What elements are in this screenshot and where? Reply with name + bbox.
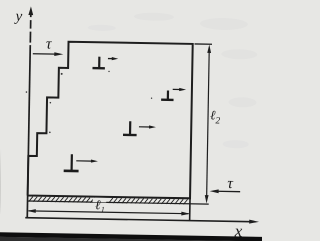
label l1 (with cleared hatch behind)	[93, 197, 107, 214]
dislocation D4 (lower left)	[64, 154, 79, 171]
right edge extension down to x-axis	[189, 198, 191, 220]
D2 glide arrow	[173, 88, 186, 91]
tau arrow bottom right	[210, 189, 241, 193]
dislocation D1 (top)	[92, 57, 105, 69]
ink specks	[25, 69, 153, 135]
svg-text:y: y	[13, 9, 22, 25]
tau arrow top left	[33, 52, 64, 56]
dimension l2	[205, 44, 212, 203]
bottom scan band	[0, 232, 270, 241]
D4 glide arrow	[76, 159, 98, 163]
svg-text:1: 1	[101, 205, 105, 214]
D1 glide arrow	[108, 57, 118, 60]
dislocation D3 (center)	[123, 121, 137, 135]
label l2	[210, 107, 221, 126]
hatched fixed bottom surface	[28, 197, 209, 205]
crystal outline with staircase left edge	[28, 41, 193, 198]
x-axis	[25, 218, 251, 222]
left edge dark smudge	[0, 148, 1, 235]
dislocation D2 (right)	[161, 90, 174, 100]
svg-text:2: 2	[215, 116, 220, 126]
top extension line for l2	[195, 43, 212, 45]
x-axis arrowhead	[249, 220, 259, 224]
y-axis	[27, 13, 31, 218]
y-axis arrowhead	[28, 6, 33, 15]
D3 glide arrow	[139, 125, 156, 128]
dimension l1	[27, 209, 190, 216]
faint show-through mottling top right	[86, 12, 258, 149]
